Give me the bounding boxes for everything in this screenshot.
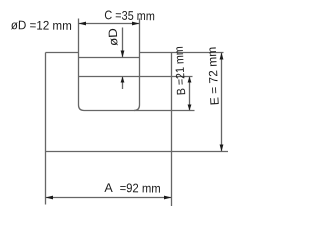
shackle opening top edge <box>79 57 140 59</box>
dimension line E <box>221 53 223 152</box>
svg-text:øD: øD <box>106 28 121 47</box>
lock body bottom edge + E bottom extension line <box>46 151 229 153</box>
shackle opening right edge + C right extension line <box>139 19 141 106</box>
arrow A right <box>164 196 172 200</box>
shackle opening bottom line + B bottom extension line <box>84 110 195 112</box>
arrow E top <box>220 53 224 60</box>
arrow D up (below inner line) <box>121 77 125 83</box>
arrow B top <box>188 77 192 83</box>
dimension line A <box>46 197 172 199</box>
dimension line C <box>79 23 140 25</box>
arrow C left <box>79 22 87 26</box>
lock body left edge + A left extension line <box>45 53 47 205</box>
shackle opening left edge + C left extension line <box>78 19 80 106</box>
dimension line D lower tail <box>122 77 124 90</box>
svg-text:=92 mm: =92 mm <box>120 181 161 195</box>
arrow A left <box>46 196 54 200</box>
svg-text:B =21 mm: B =21 mm <box>172 46 189 96</box>
arrow C right <box>132 22 140 26</box>
arrow E bottom <box>220 145 224 152</box>
dimension line D upper <box>122 28 124 58</box>
shackle opening bottom-left rounded corner <box>79 105 85 111</box>
shackle inner top line + B top extension line <box>79 76 193 78</box>
svg-text:C =35 mm: C =35 mm <box>104 8 155 23</box>
lock body right edge + A right extension line <box>171 53 173 207</box>
shackle opening bottom-right rounded corner <box>134 105 140 111</box>
lock body top edge left segment <box>46 52 79 54</box>
lock body top edge right segment + E top extension line <box>140 52 224 54</box>
svg-text:øD =12 mm: øD =12 mm <box>11 18 72 33</box>
svg-text:A: A <box>104 181 113 195</box>
arrow B bottom <box>188 105 192 111</box>
arrow D down (above opening top) <box>121 51 125 58</box>
dimension line B <box>189 77 191 111</box>
